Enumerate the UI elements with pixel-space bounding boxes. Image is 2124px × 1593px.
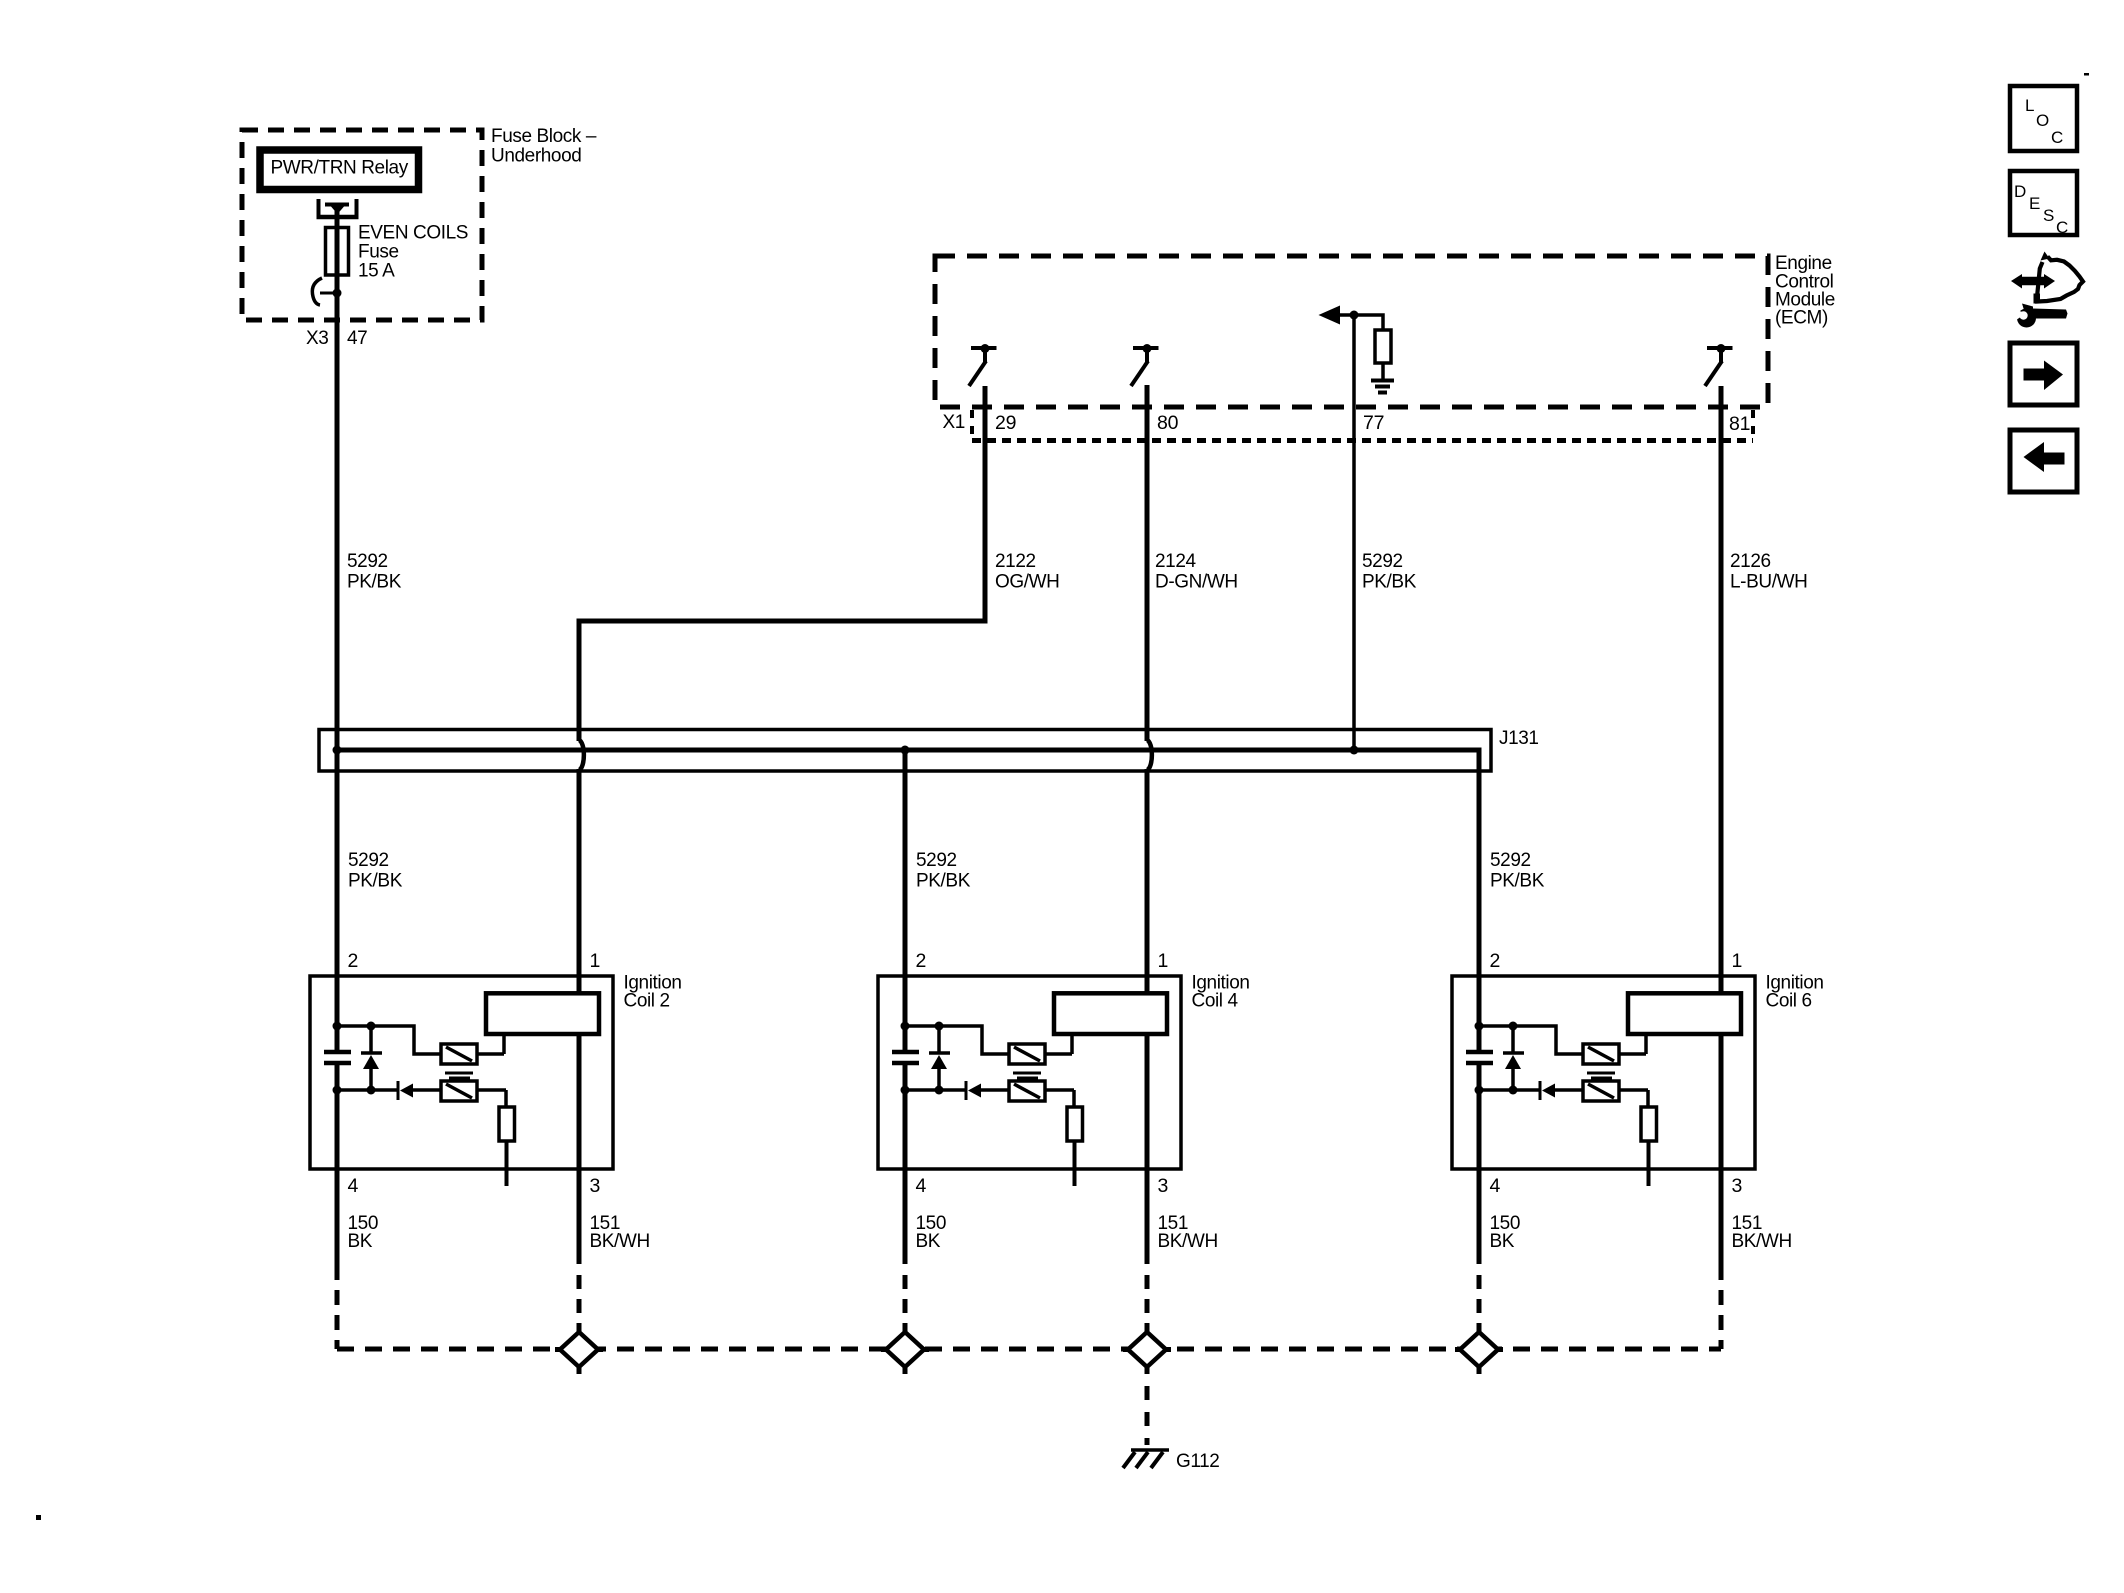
svg-text:Underhood: Underhood [491,146,581,167]
coil 6 internal resistor [1641,1107,1657,1141]
coil 4 capacitor [892,1050,919,1055]
hotspot icon wrench [2033,309,2068,319]
splice J131 bus wire [337,750,1479,1050]
PWR/TRN Relay box [260,150,419,190]
svg-text:1: 1 [1732,950,1743,972]
svg-text:2: 2 [1490,950,1501,972]
svg-text:L: L [2025,96,2034,115]
svg-text:J131: J131 [1499,728,1539,749]
svg-text:X1: X1 [943,412,965,433]
ECM driver output pin 80 [1133,346,1159,350]
svg-text:2122: 2122 [995,551,1036,572]
dashed drop coil2 pin4 [335,1290,340,1349]
ground symbol G112 [1131,1448,1169,1452]
LOC button [2010,86,2077,151]
svg-text:PWR/TRN Relay: PWR/TRN Relay [271,158,409,179]
splice diamond 4 [1477,1327,1482,1333]
coil 6 driver stage lower [1583,1081,1619,1101]
dashed drop coil2 pin3 [577,1275,582,1330]
svg-text:PK/BK: PK/BK [916,871,971,892]
svg-text:3: 3 [590,1175,601,1197]
wire 2122 OG/WH from ECM 29 to coil2 pin1 [579,386,985,741]
ECM driver output pin 81 [1707,346,1733,350]
svg-text:80: 80 [1157,412,1179,434]
svg-text:BK: BK [1490,1231,1515,1252]
coil 2 internal resistor [499,1107,515,1141]
svg-text:S: S [2043,206,2054,225]
coil 4 junction dots [901,1022,910,1031]
coil 6 capacitor [1466,1050,1493,1055]
coil 6 internal wiring upper [1479,1026,1583,1054]
coil 6 diode [1539,1081,1542,1100]
svg-text:5292: 5292 [1490,850,1531,871]
splice J131 bus box [319,730,1491,772]
svg-text:L-BU/WH: L-BU/WH [1730,572,1807,593]
coil 6 lower pin2-pin4 wire [1477,1064,1482,1264]
engine control module ECM dashed box [935,256,1768,407]
svg-text:Coil 6: Coil 6 [1766,991,1812,1012]
coil 2 lower pin2-pin4 wire [335,1064,340,1280]
coil 4 secondary winding block [1054,993,1167,1034]
svg-text:EVEN COILS: EVEN COILS [358,223,468,244]
back arrow button [2010,430,2077,492]
dashed ground bus [337,1347,1721,1352]
coil 4 internal wiring upper [905,1026,1009,1054]
svg-text:Fuse: Fuse [358,242,399,263]
dashed drop coil6 pin3 [1719,1290,1724,1349]
splice diamond 1 [577,1327,582,1333]
coil 6 internal wiring lower [1479,1088,1540,1092]
svg-text:4: 4 [348,1175,359,1197]
coil 4 diode [965,1081,968,1100]
dashed drop to ground G112 [1145,1386,1150,1445]
svg-text:5292: 5292 [1362,551,1403,572]
coil 2 internal wiring lower [337,1088,398,1092]
coil 2 junction dots [333,1022,342,1031]
svg-text:O: O [2036,111,2049,130]
svg-text:Coil 2: Coil 2 [624,991,670,1012]
svg-text:5292: 5292 [916,850,957,871]
coil 2 driver stage lower [441,1081,477,1101]
svg-text:1: 1 [590,950,601,972]
coil 2 driver stage upper [441,1044,477,1064]
coil 2 capacitor [324,1050,351,1055]
wire 2124 D-GN/WH from ECM 80 to coil4 pin1 [1145,385,1150,741]
svg-text:2: 2 [348,950,359,972]
svg-text:PK/BK: PK/BK [347,572,402,593]
svg-text:D-GN/WH: D-GN/WH [1155,572,1238,593]
svg-text:PK/BK: PK/BK [1490,871,1545,892]
fuse EVEN COILS 15A [326,228,349,276]
coil 4 internal wiring lower [905,1088,966,1092]
svg-text:2: 2 [916,950,927,972]
coil 2 isolation barrier [445,1072,473,1075]
wire 5292 PK/BK bus to coil4 pin2 [903,750,908,1050]
svg-text:3: 3 [1732,1175,1743,1197]
coil 4 internal resistor [1067,1107,1083,1141]
next arrow button [2010,343,2077,405]
svg-text:2126: 2126 [1730,551,1771,572]
svg-text:BK/WH: BK/WH [1732,1231,1792,1252]
ignition coil 4 box [878,976,1181,1169]
ignition coil 2 box [310,976,613,1169]
coil 2 diode [397,1081,400,1100]
ECM internal ground [1371,379,1394,383]
svg-text:(ECM): (ECM) [1775,308,1828,329]
hotspot icon outline [2037,257,2083,302]
connector X1 dotted strip [970,410,974,440]
wire hop over splice bus at coil4 pin1 [1147,740,1152,770]
wire hop over splice bus at coil2 pin1 [579,740,584,770]
coil 4 isolation barrier [1013,1072,1041,1075]
svg-text:G112: G112 [1176,1451,1219,1472]
svg-text:C: C [2051,128,2063,147]
svg-text:BK: BK [348,1231,373,1252]
svg-text:BK/WH: BK/WH [590,1231,650,1252]
dashed drop coil6 pin4 [1477,1275,1482,1330]
svg-text:Fuse Block –: Fuse Block – [491,126,597,147]
svg-text:5292: 5292 [347,551,388,572]
relay contact symbol [317,199,321,217]
junction dot bus left [333,746,342,755]
svg-text:1: 1 [1158,950,1169,972]
coil 6 junction dots [1475,1022,1484,1031]
svg-text:4: 4 [916,1175,927,1197]
fuse block underhood dashed box [242,130,482,320]
junction dot below fuse [333,289,342,298]
coil 4 driver stage upper [1009,1044,1045,1064]
junction dot bus coil4 [901,746,910,755]
wire 2126 L-BU/WH from ECM 81 to coil6 pin1 [1719,386,1724,1280]
svg-text:77: 77 [1363,412,1384,434]
svg-text:PK/BK: PK/BK [1362,572,1417,593]
svg-text:4: 4 [1490,1175,1501,1197]
coil 2 internal wiring upper [337,1026,441,1054]
coil 4 lower pin2-pin4 wire [903,1064,908,1264]
svg-text:29: 29 [995,412,1016,434]
svg-text:47: 47 [347,328,367,349]
coil 2 secondary winding block [486,993,599,1034]
wire 5292 PK/BK from ECM 77 to splice J131 [1352,315,1356,750]
hotspot icon double arrow [2019,277,2047,286]
coil 6 zener diode [1511,1026,1515,1053]
coil 4 driver stage lower [1009,1081,1045,1101]
svg-text:BK/WH: BK/WH [1158,1231,1218,1252]
connector terminal hook [320,292,337,295]
splice diamond 2 [903,1327,908,1333]
svg-text:5292: 5292 [348,850,389,871]
ECM internal sense arrow pin 77 [1325,315,1383,330]
svg-text:Coil 4: Coil 4 [1192,991,1239,1012]
coil 6 driver stage upper [1583,1044,1619,1064]
svg-text:PK/BK: PK/BK [348,871,403,892]
svg-text:C: C [2056,218,2068,237]
DESC button [2010,171,2077,235]
ECM driver output pin 29 [971,346,997,350]
svg-text:3: 3 [1158,1175,1169,1197]
svg-text:15 A: 15 A [358,261,395,282]
wire relay to fuse to X3-47 [335,204,340,1050]
svg-text:E: E [2029,194,2040,213]
dashed drop coil4 pin4 [903,1275,908,1330]
svg-text:81: 81 [1729,413,1750,435]
svg-text:OG/WH: OG/WH [995,572,1060,593]
svg-text:2124: 2124 [1155,551,1197,572]
ECM internal resistor [1375,330,1391,363]
coil 6 secondary winding block [1628,993,1741,1034]
splice diamond 3 [1145,1327,1150,1333]
ignition coil 6 box [1452,976,1755,1169]
svg-text:X3: X3 [306,328,328,349]
dashed drop coil4 pin3 [1145,1275,1150,1330]
svg-text:BK: BK [916,1231,941,1252]
coil 4 zener diode [937,1026,941,1053]
coil 6 isolation barrier [1587,1072,1615,1075]
junction dot bus pin77 wire [1350,746,1359,755]
page artifact marks [2084,73,2089,76]
svg-text:D: D [2014,182,2026,201]
coil 2 zener diode [369,1026,373,1053]
